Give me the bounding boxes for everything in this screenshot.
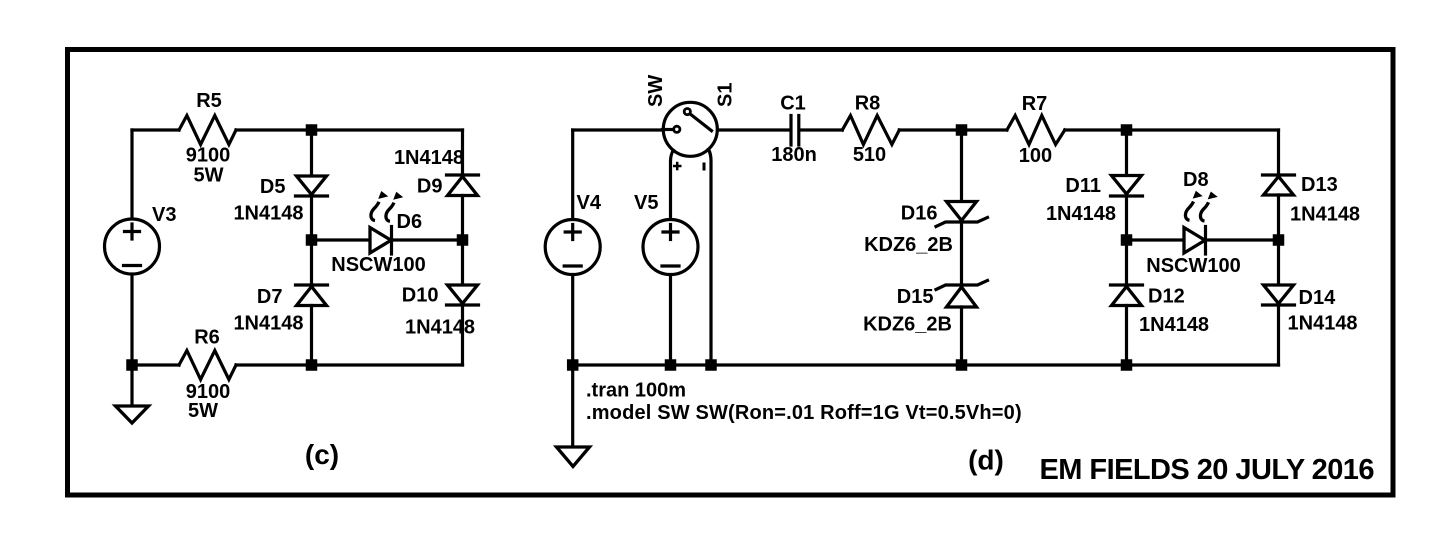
node: mid-right junction (c) [457, 234, 469, 246]
wire: bottom left segment (c) [132, 363, 179, 366]
svg-text:510: 510 [853, 144, 886, 166]
svg-text:1N4148: 1N4148 [1046, 203, 1116, 225]
svg-text:R8: R8 [855, 93, 881, 115]
switch control lead right [709, 149, 711, 365]
wire: zener column top [960, 130, 963, 202]
wire: zener column bottom [960, 307, 963, 365]
wire: D13 to mid [1277, 195, 1280, 240]
svg-text:KDZ6_2B: KDZ6_2B [863, 314, 952, 336]
svg-text:SW: SW [645, 75, 667, 107]
wire: R7 to right corner [1065, 128, 1279, 131]
wire: (c) left vertical above V3 [130, 130, 133, 219]
voltage source V3 [105, 219, 160, 274]
svg-text:R6: R6 [194, 327, 220, 349]
capacitor C1 [789, 116, 792, 146]
ground (c) [130, 365, 133, 406]
svg-text:R7: R7 [1022, 93, 1048, 115]
node: bottom-left junction (c) [126, 359, 138, 371]
wire: V4 top vertical [571, 130, 574, 219]
svg-text:D9: D9 [417, 176, 443, 198]
resistor R5 [179, 116, 236, 145]
svg-text:5W: 5W [188, 400, 218, 422]
svg-text:V4: V4 [577, 192, 602, 214]
diode D5 [297, 176, 327, 195]
svg-text:1N4148: 1N4148 [1139, 314, 1209, 336]
svg-text:D6: D6 [397, 211, 423, 233]
wire: bottom wire (c) [236, 363, 463, 366]
wire: D9 to mid [461, 196, 464, 241]
svg-text:NSCW100: NSCW100 [331, 254, 425, 276]
LED D6 light arrows [371, 191, 403, 221]
wire: D10 branch top [461, 240, 464, 285]
node: mid-left junction (c) [306, 234, 318, 246]
svg-text:D8: D8 [1183, 169, 1209, 191]
svg-text:R5: R5 [196, 90, 222, 112]
LED D8 [1184, 228, 1205, 254]
voltage source V4 [545, 220, 600, 275]
svg-text:D13: D13 [1301, 174, 1338, 196]
wire: D14 to bottom [1277, 305, 1280, 365]
wire: V4 bottom vertical [571, 275, 574, 365]
resistor R6 [179, 351, 236, 380]
svg-text:C1: C1 [780, 93, 806, 115]
svg-text:1N4148: 1N4148 [1290, 204, 1360, 226]
svg-text:1N4148: 1N4148 [233, 313, 303, 335]
diode D11 [1112, 176, 1142, 195]
svg-text:180n: 180n [771, 144, 817, 166]
svg-text:NSCW100: NSCW100 [1146, 255, 1240, 277]
wire: mid wire left of D6 [312, 238, 371, 241]
wire: mid wire right of D8 [1206, 238, 1279, 241]
svg-text:100: 100 [1019, 145, 1052, 167]
wire: D14 branch top [1277, 240, 1280, 285]
zener D16 [947, 202, 977, 221]
wire: D13 branch top [1277, 130, 1280, 175]
svg-text:D10: D10 [402, 285, 439, 307]
svg-text:(c): (c) [305, 439, 339, 470]
svg-text:D15: D15 [897, 286, 934, 308]
switch + mark [673, 165, 682, 168]
diode D14 [1264, 285, 1294, 304]
resistor R8 [842, 116, 899, 145]
svg-text:(d): (d) [968, 445, 1004, 476]
node: junction top of D5 branch [306, 124, 318, 136]
wire: bottom wire (d) [573, 363, 1279, 366]
wire: top wire to switch [573, 128, 663, 131]
wire: (c) top-left horizontal [132, 128, 179, 131]
wire: D5 branch top [310, 130, 313, 176]
svg-text:V5: V5 [634, 192, 658, 214]
node: bottom junction V4 [567, 359, 579, 371]
svg-text:S1: S1 [715, 83, 737, 107]
ground (d) [571, 365, 574, 447]
svg-text:D5: D5 [260, 176, 286, 198]
wire: C1 to R8 [800, 128, 842, 131]
diode D7 [296, 283, 328, 286]
svg-text:.tran 100m: .tran 100m [586, 380, 686, 402]
node: mid-right junction (d) [1273, 234, 1285, 246]
svg-text:KDZ6_2B: KDZ6_2B [864, 234, 953, 256]
svg-text:9100: 9100 [186, 145, 231, 167]
node: junction zener column top [956, 124, 968, 136]
diode D12 [1111, 283, 1143, 286]
svg-text:D12: D12 [1148, 286, 1185, 308]
wire: D9 branch top [461, 130, 464, 175]
wire: D7 to bottom [310, 306, 313, 366]
svg-text:D16: D16 [901, 203, 938, 225]
switch control lead left [671, 150, 674, 219]
node: junction D11 column top [1121, 124, 1133, 136]
node: bottom mid junction (c) [306, 359, 318, 371]
wire: D10 to bottom [461, 305, 464, 365]
LED D6 [370, 228, 391, 254]
LED D8 light arrows [1185, 191, 1217, 221]
svg-text:5W: 5W [194, 165, 224, 187]
wire: switch to C1 [718, 128, 789, 131]
border frame [68, 50, 1394, 496]
svg-text:V3: V3 [152, 204, 176, 226]
switch - mark [703, 163, 706, 171]
wire: D11 to mid [1125, 196, 1128, 240]
wire: D5 to mid node [310, 196, 313, 240]
svg-text:D7: D7 [257, 286, 283, 308]
svg-text:1N4148: 1N4148 [405, 317, 475, 339]
wire: mid wire left of D8 [1127, 238, 1185, 241]
node: mid-left junction (d) [1121, 234, 1133, 246]
svg-text:D14: D14 [1299, 287, 1337, 309]
wire: V5 bottom vertical [669, 275, 672, 365]
voltage source V5 [643, 220, 698, 275]
wire: (c) top mid horizontal [236, 128, 463, 131]
node: bottom junction D12 [1121, 359, 1133, 371]
svg-text:.model SW SW(Ron=.01 Roff=1G V: .model SW SW(Ron=.01 Roff=1G Vt=0.5Vh=0) [586, 402, 1022, 424]
wire: D12 to bottom [1125, 306, 1128, 366]
wire: mid wire right of D6 [392, 238, 463, 241]
wire: R8 to R7 [899, 128, 1007, 131]
wire: D11 branch top [1125, 130, 1128, 176]
node: bottom junction zener [956, 359, 968, 371]
zener D15 [936, 281, 988, 290]
wire: D12 branch top [1125, 240, 1128, 285]
resistor R7 [1007, 116, 1065, 145]
switch S1 [663, 102, 717, 156]
diode D13 [1263, 173, 1295, 176]
node: bottom junction V5 [665, 359, 677, 371]
svg-text:1N4148: 1N4148 [1288, 313, 1358, 335]
wire: between zeners [960, 222, 963, 285]
svg-text:EM FIELDS 20 JULY 2016: EM FIELDS 20 JULY 2016 [1040, 454, 1375, 486]
wire: (c) left vertical below V3 [130, 275, 133, 366]
diode D9 [447, 173, 479, 176]
svg-text:1N4148: 1N4148 [233, 203, 303, 225]
svg-text:1N4148: 1N4148 [394, 147, 464, 169]
svg-text:D11: D11 [1065, 175, 1101, 197]
node: bottom junction SW ctrl [705, 359, 717, 371]
wire: D7 branch top [310, 240, 313, 285]
diode D10 [448, 285, 478, 304]
